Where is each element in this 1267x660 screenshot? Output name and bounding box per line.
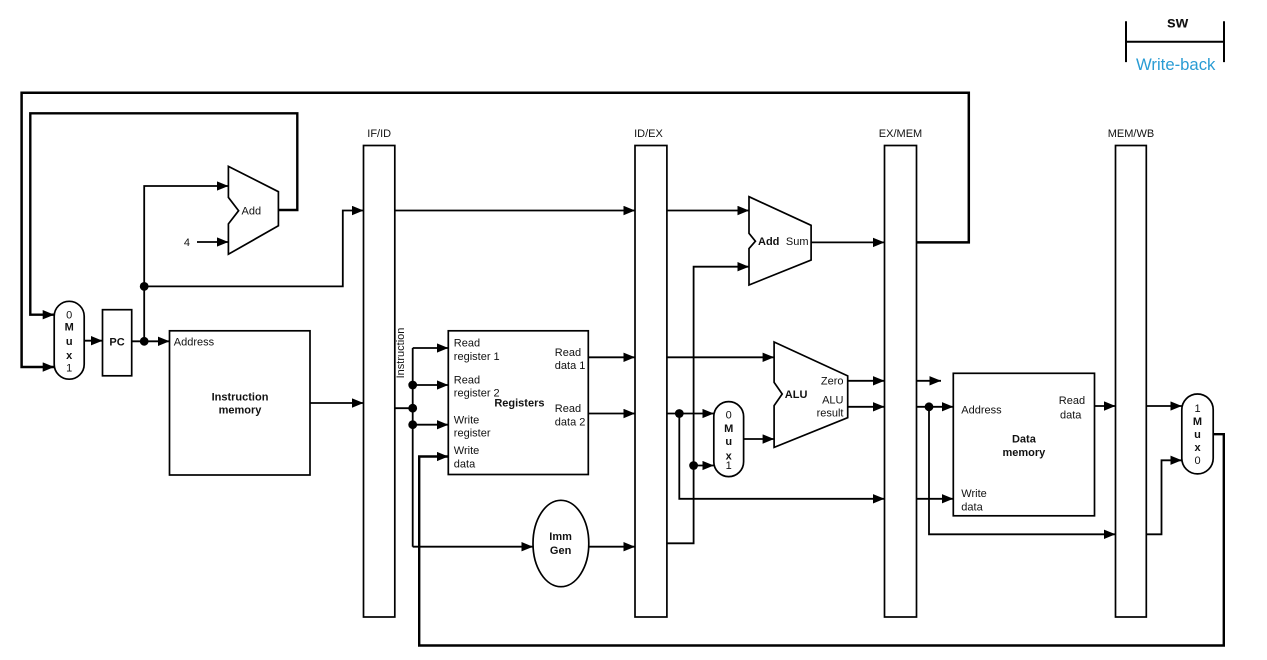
wire: MEM/WB read data to Mux input 1 [1146,405,1182,407]
svg-text:register 1: register 1 [454,351,500,363]
svg-text:Gen: Gen [550,545,572,557]
block Registers [448,331,588,475]
svg-text:0: 0 [1194,455,1200,467]
wire: ALU result bypass down to MEM/WB [929,407,1116,535]
svg-text:Imm: Imm [549,531,572,543]
wire: immediate from ID/EX up to branch Add bottom input [667,267,749,544]
svg-text:Read: Read [555,347,581,359]
mux M2 (ALU source mux) [714,402,744,477]
wire: ID/EX Read data 2 to ALUsrc Mux input 0 [667,413,714,415]
svg-text:1: 1 [1194,403,1200,415]
svg-text:Address: Address [174,336,215,348]
svg-text:data: data [1060,410,1082,422]
svg-text:M: M [1193,416,1202,428]
wire: constant 4 into Add bottom input [197,241,228,243]
svg-text:x: x [66,350,73,362]
wire: Add Sum output to EX/MEM [811,241,884,243]
op ALU [774,342,848,447]
pipeline register EX/MEM [879,128,922,617]
wire: Imm Gen output to ID/EX [589,546,635,548]
wire: IF/ID to ID/EX (PC field) [395,210,635,212]
wire: instruction to Read register 1 [413,347,449,349]
svg-text:Instruction: Instruction [395,328,407,379]
svg-text:Read: Read [454,338,480,350]
wire: PC output to Instruction memory Address [132,340,170,342]
svg-text:sw: sw [1167,15,1189,32]
mux M1 (PC source mux) [54,301,84,379]
svg-text:ALU: ALU [822,394,843,406]
node: junction instruction bus / Read register 2 [408,381,417,390]
wire: instruction to Write register [413,424,449,426]
block Data memory [953,373,1094,516]
svg-text:Add: Add [758,236,779,248]
svg-text:x: x [1194,442,1201,454]
svg-text:4: 4 [184,237,190,249]
svg-text:M: M [65,322,74,334]
svg-text:data 1: data 1 [555,360,586,372]
svg-text:Zero: Zero [821,376,844,388]
svg-text:Write-back: Write-back [1136,55,1216,74]
svg-text:Registers: Registers [494,398,544,410]
svg-text:data 2: data 2 [555,416,586,428]
wire: Read data 2 to ID/EX [588,413,635,415]
svg-text:data: data [454,458,476,470]
block Instruction memory [170,331,311,475]
svg-text:data: data [961,501,983,513]
svg-text:ALU: ALU [785,389,808,401]
pipeline register ID/EX [634,128,667,617]
wire: Read data 1 to ID/EX [588,356,635,358]
svg-text:Sum: Sum [786,236,809,248]
wire: instruction to Imm Gen [413,546,533,548]
block Imm Gen [533,500,589,586]
node: junction instruction bus / Write register [408,420,417,429]
svg-text:Write: Write [961,488,986,500]
svg-text:1: 1 [726,460,732,472]
svg-text:u: u [66,336,73,348]
wire: ALUsrc Mux output to ALU bottom input [744,438,775,440]
node: junction on PC to Instruction memory wire [140,337,149,346]
mux M3 (write-back mux) [1182,394,1213,474]
svg-text:Read: Read [555,403,581,415]
wire: immediate to ALUsrc Mux input 1 [694,465,714,467]
adder Add (branch target) [749,197,811,285]
node: junction ALU result / bypass to MEM/WB [925,402,934,411]
svg-text:0: 0 [726,409,732,421]
svg-text:Read: Read [1059,395,1085,407]
svg-text:Address: Address [961,405,1002,417]
wire: PC value up to Add top input [144,186,228,341]
wire: Instruction memory output to IF/ID [310,402,364,404]
wire: store data from EX/MEM to Data memory Write data [917,498,954,500]
wire: instruction bus out of IF/ID (vertical distribution) [395,348,413,547]
wire: PC value to IF/ID register [144,211,363,287]
wire: ALU result from EX/MEM to Data memory Address [917,406,954,408]
wire: ID/EX PC to branch Add top input [667,210,749,212]
svg-text:register 2: register 2 [454,388,500,400]
svg-text:IF/ID: IF/ID [367,128,391,140]
svg-text:M: M [724,423,733,435]
svg-text:PC: PC [109,337,124,349]
wire: PC+4 loop from Add output back to Mux input 0 [30,113,297,314]
wire: write-back loop from Mux output to Registers Write data [419,434,1224,645]
svg-text:u: u [1194,429,1201,441]
wire: branch target loop from EX/MEM Sum output back to Mux input 1 [22,93,969,367]
wire: Read data 2 down and right to EX/MEM (store data) [679,414,884,499]
svg-text:ID/EX: ID/EX [634,128,663,140]
node: junction PC line / branch to IF/ID [140,282,149,291]
wire: ALU Zero output to EX/MEM [848,380,885,382]
wire: ALU result output to EX/MEM [848,406,885,408]
wire: Zero out of EX/MEM (stub) [917,380,942,382]
wire: instruction to Read register 2 [413,384,449,386]
node: junction Read data 2 / write data path [675,409,684,418]
adder Add (PC+4) [228,166,278,254]
annotation bracket: sw write-back stage [1126,15,1224,75]
register PC [103,310,132,376]
svg-text:result: result [817,407,844,419]
pipeline register MEM/WB [1108,128,1154,617]
svg-text:Write: Write [454,414,479,426]
wire: Mux output to PC [84,340,102,342]
svg-text:memory: memory [1003,447,1047,459]
wire: Data memory Read data to MEM/WB [1095,405,1116,407]
svg-text:Write: Write [454,445,479,457]
wire: MEM/WB ALU result to Mux input 0 [1146,460,1182,534]
svg-text:Data: Data [1012,433,1037,445]
svg-text:Add: Add [242,206,262,218]
svg-text:1: 1 [66,363,72,375]
wire: ID/EX Read data 1 to ALU top input [667,356,774,358]
svg-text:memory: memory [219,405,263,417]
node: junction instruction bus / IF/ID output [408,404,417,413]
pipeline register IF/ID [364,128,395,617]
svg-text:MEM/WB: MEM/WB [1108,128,1154,140]
svg-text:register: register [454,428,491,440]
svg-text:0: 0 [66,310,72,322]
node: junction immediate / Mux input 1 [689,461,698,470]
svg-text:Read: Read [454,374,480,386]
svg-text:Instruction: Instruction [212,391,269,403]
svg-text:EX/MEM: EX/MEM [879,128,922,140]
svg-text:u: u [725,436,732,448]
